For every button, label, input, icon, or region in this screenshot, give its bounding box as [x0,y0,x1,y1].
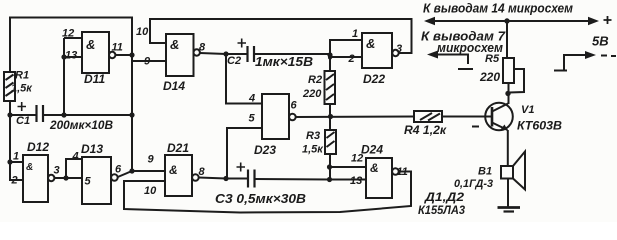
op-amp U1: NAND gate D1.1 [62,28,123,87]
wire: R2 bottom to main net [329,104,331,117]
wire: feedback rail from D2.2 output to D1.4 pin 10 [150,19,412,53]
op-amp U6: NAND gate D2.1 [144,141,206,197]
svg-text:12: 12 [351,153,363,165]
capacitor C2 1мк×15В [226,39,330,70]
svg-text:5В: 5В [592,34,609,49]
svg-text:1: 1 [13,151,19,163]
node: junction pin13 / C3 right [327,177,332,182]
wire: D2.3 pin 5 down to C3 node [227,128,262,179]
wire: D1.2 pin 1 branch [10,161,23,163]
svg-text:9: 9 [148,154,155,166]
op-amp U4: NAND gate D2.3 [248,93,298,158]
svg-text:С3 0,5мк×30В: С3 0,5мк×30В [215,191,306,206]
wire: D1.1 pins 12,13 tie going down to C1 [64,38,82,115]
wire: D1.4 output to C2 node [200,53,226,54]
svg-text:D21: D21 [167,141,189,155]
svg-text:11: 11 [112,42,123,54]
svg-text:4: 4 [72,151,79,163]
op-amp U7: NAND gate D1.2 [11,140,60,202]
svg-text:&: & [86,37,95,52]
svg-text:4: 4 [248,93,255,105]
svg-text:&: & [170,37,179,52]
svg-text:5: 5 [249,113,256,125]
svg-text:10: 10 [144,185,157,197]
wire: bus down to D2.1 pin 9 [132,170,165,172]
wire: D2.1 output to C3 node [199,178,226,179]
node: junction +5V bus / R5 [504,18,509,23]
wire: bus to D1.4 pin 9 [132,60,166,62]
svg-text:200мк×10В: 200мк×10В [49,118,113,132]
svg-text:D23: D23 [254,143,276,157]
svg-text:R2: R2 [308,74,322,86]
svg-text:В1: В1 [478,166,492,178]
wire: D1.1 output to bus [115,54,132,56]
svg-text:3: 3 [396,43,402,55]
node: junction bus / D1.3 out / pin 9 [129,168,134,173]
op-amp U8: NAND gate D1.3 [72,142,123,204]
resistor R3 1,5к [302,117,336,156]
node: junction D1.4 out / C2 / D2.3 pin4 [223,51,228,56]
svg-text:К выводам 14 микросхем: К выводам 14 микросхем [423,2,573,16]
transistor Q1: V1 КТ603В [472,103,562,133]
svg-text:К155ЛА3: К155ЛА3 [418,205,466,217]
wire: top-left rail and long vertical feedback bus [10,18,132,172]
svg-text:13: 13 [65,50,77,62]
svg-text:2: 2 [11,175,18,187]
svg-text:6: 6 [291,100,298,112]
svg-text:R4 1,2к: R4 1,2к [404,123,447,137]
resistor R4 1,2к [404,111,447,137]
svg-text:13: 13 [350,175,362,187]
svg-text:R3: R3 [306,130,320,142]
node: junction collector [505,91,510,96]
svg-text:D22: D22 [363,72,385,86]
svg-text:R1: R1 [15,70,29,82]
node: junction R2 / main net [328,114,333,119]
svg-text:Д1,Д2: Д1,Д2 [424,192,465,204]
svg-text:8: 8 [199,166,206,178]
wire: R4 to base [442,116,492,118]
wire: C2 node down to D2.3 pin 4 [226,54,262,104]
svg-text:3: 3 [54,165,60,177]
node: junction R3 / pin 12 [327,164,332,169]
op-amp U5: NAND gate D2.4 [350,143,408,199]
svg-text:&: & [366,36,375,51]
svg-text:КТ603В: КТ603В [517,119,562,133]
svg-text:&: & [169,163,178,177]
resistor R5 220 [479,53,514,84]
svg-text:V1: V1 [521,104,534,116]
svg-text:&: & [26,162,33,173]
wire: D2.3 output main net to R4 [296,116,414,119]
wire: D2.4 pin 13 [330,179,367,181]
op-amp U2: NAND gate D1.4 [136,26,206,93]
wire: C2 right node up/down to D2.2 inputs and R2 [330,40,362,71]
node: junction pins 12-13 [61,54,66,59]
svg-text:1мк×15В: 1мк×15В [255,55,313,69]
svg-text:220: 220 [479,70,500,84]
svg-text:1,5к: 1,5к [11,83,33,95]
svg-text:0,1ГД-3: 0,1ГД-3 [454,178,493,190]
svg-text:D12: D12 [27,140,49,154]
node: junction D2.1 out / C3 / pin5 drop [223,176,228,181]
wire: bus down to R5 [506,21,508,58]
svg-text:D24: D24 [361,143,383,157]
wire: +5V bus with arrows [430,20,593,22]
wire: ground bus left arrow with break mark [427,51,473,70]
svg-text:6: 6 [115,164,122,176]
svg-text:220: 220 [302,88,322,100]
speaker B1 0,1ГД-3 [454,152,525,191]
svg-text:D14: D14 [163,79,185,93]
node: junction D1.1 out / bus [129,52,134,57]
wire: R5 side bracket [509,69,524,93]
svg-text:1: 1 [352,28,358,40]
svg-text:10: 10 [136,26,149,38]
node: junction D1.2 out / pin4 drop [63,175,68,180]
ground [498,208,521,212]
wire: R5 bottom to collector [508,83,510,104]
node: +5В supply label [592,16,612,49]
wire: D2.4 pin 12 [330,166,367,168]
node: junction left rail / pin1 [7,159,12,164]
op-amp U3: NAND gate D2.2 [348,28,403,86]
node: junction C2/D2.2 inputs [327,52,332,57]
wire: left rail below R1 down to D1.2 pin 2 [10,101,23,180]
svg-text:8: 8 [199,42,206,54]
resistor R2 220 [302,71,335,104]
wire: D2.4 output loop to D2.1 pin 10 [124,172,411,213]
svg-text:R5: R5 [485,53,500,65]
svg-text:D11: D11 [84,72,105,86]
wire: ground bus right arrow with break mark [554,51,616,71]
wire: D1.2 out to D1.3 pins 4,5 [54,159,82,178]
node: junction left rail / C1 [7,112,12,117]
svg-text:С1: С1 [16,115,30,127]
capacitor C3 0,5мк×30В [215,163,330,207]
resistor R1 [4,70,33,102]
svg-text:D13: D13 [81,142,103,156]
wire: D1.3 output to bus junction [118,171,132,177]
wire: R3 bottom to D2.4 inputs [329,154,331,180]
wire: emitter down to speaker [507,130,509,166]
svg-text:С2: С2 [227,55,241,67]
svg-text:5: 5 [85,176,92,188]
node: junction C1 wire / D1.1 input drop [61,112,66,117]
node: junction C1 wire / vertical bus [129,112,134,117]
svg-text:2: 2 [348,53,355,65]
svg-text:1,5к: 1,5к [302,144,324,156]
svg-text:12: 12 [62,28,74,40]
svg-text:9: 9 [144,56,151,68]
capacitor C1 200мк×10В [10,102,132,132]
wire: speaker to ground [507,179,509,208]
svg-text:&: & [370,161,379,175]
